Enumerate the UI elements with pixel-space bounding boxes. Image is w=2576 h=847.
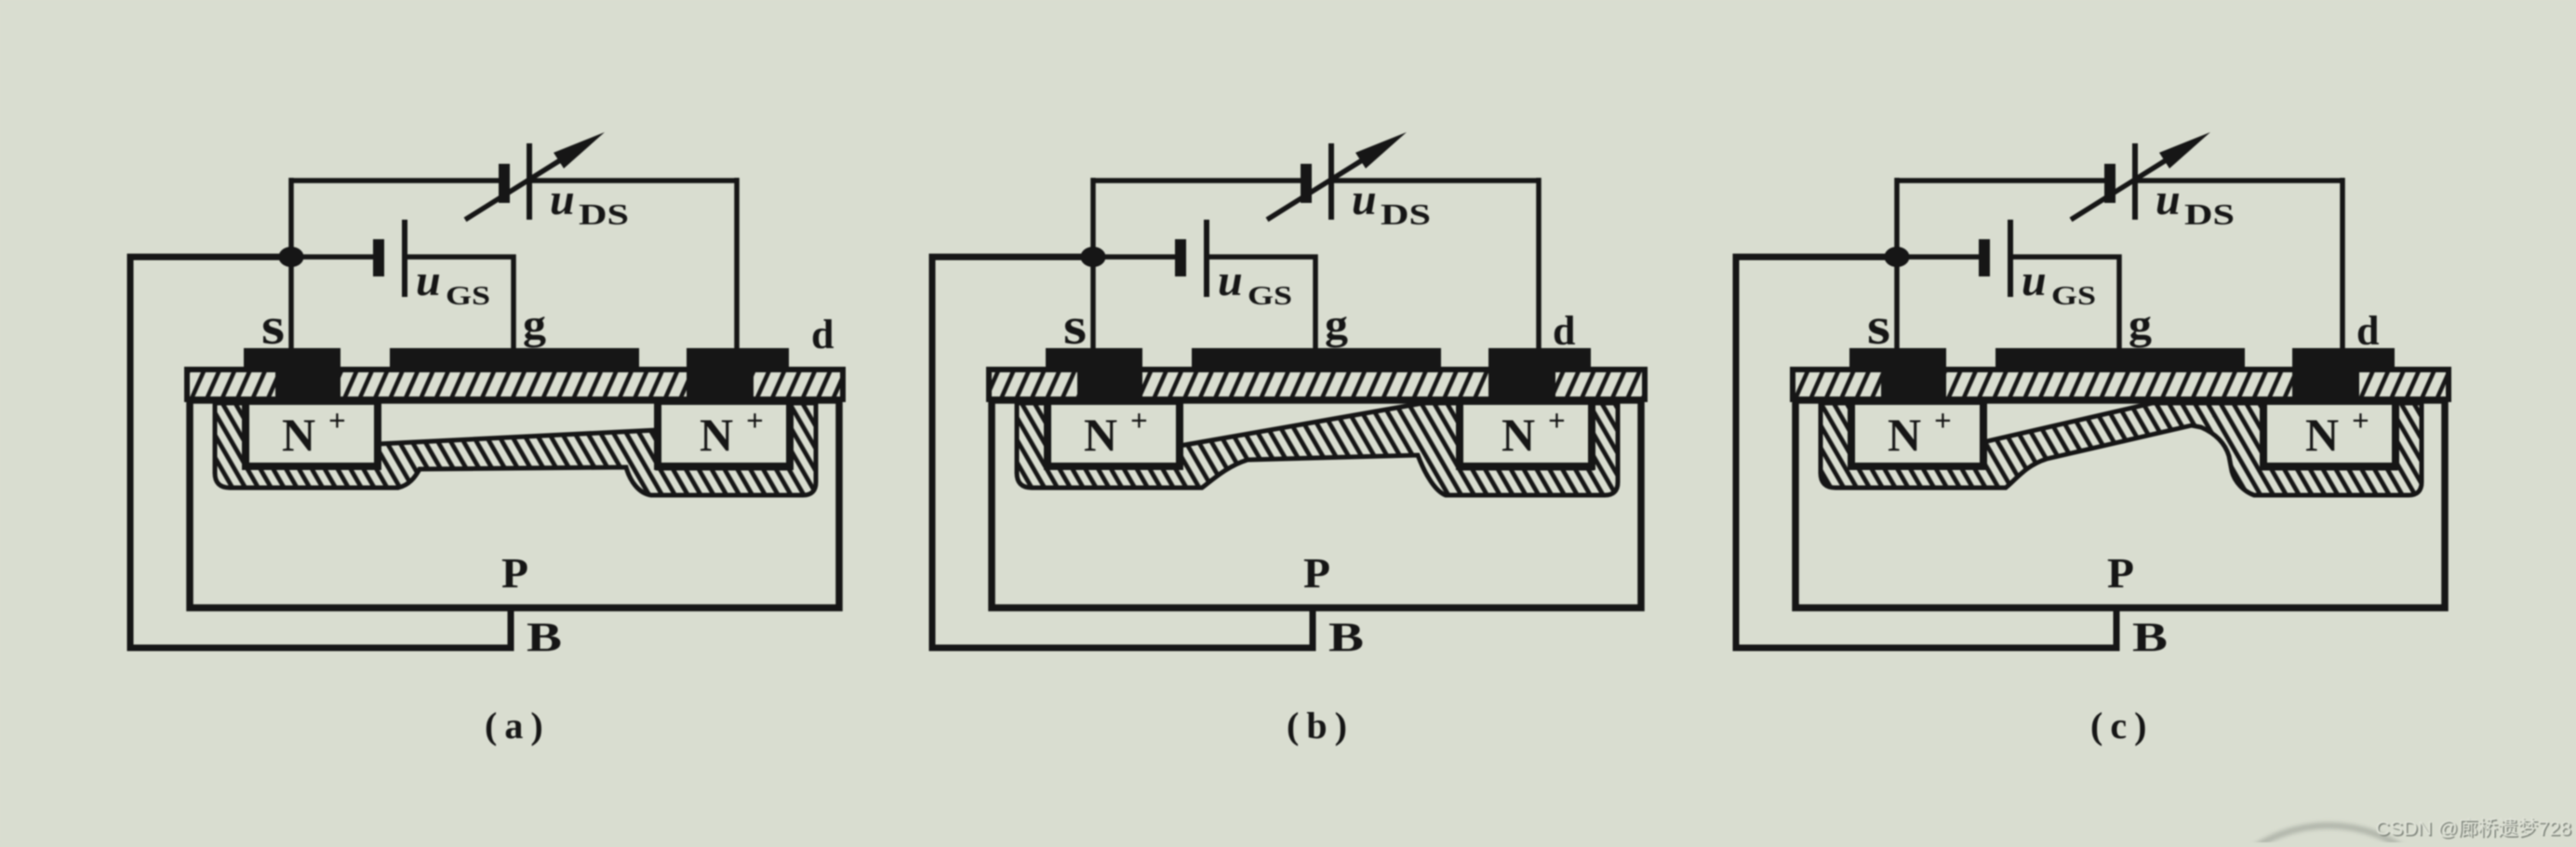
- svg-text:g: g: [1325, 301, 1348, 348]
- svg-text:N: N: [282, 409, 315, 461]
- wire: node to uGS battery (b): [1093, 254, 1176, 260]
- svg-text:N: N: [1084, 409, 1117, 461]
- battery uDS short plate (c): [2104, 164, 2116, 203]
- svg-text:N: N: [2305, 409, 2339, 461]
- wire: node to uGS battery (a): [291, 254, 374, 260]
- N+ source well (a): [246, 401, 378, 466]
- wire: uGS battery to gate (c): [2012, 257, 2119, 349]
- svg-text:d: d: [1553, 308, 1575, 354]
- svg-text:g: g: [2129, 301, 2152, 348]
- metal contact d (c): [2292, 348, 2395, 372]
- svg-text:+: +: [746, 405, 764, 438]
- metal contact d (b): [1488, 348, 1591, 372]
- svg-text:B: B: [2132, 614, 2168, 660]
- svg-text:+: +: [328, 405, 346, 438]
- svg-text:s: s: [1063, 298, 1087, 356]
- svg-text:CSDN @廊桥遗梦728: CSDN @廊桥遗梦728: [2375, 817, 2571, 840]
- svg-text:d: d: [811, 312, 834, 357]
- oxide layer SiO2 hatched (b): [989, 370, 1645, 399]
- metal contact d (a): [687, 348, 789, 372]
- oxide layer SiO2 hatched (c): [1793, 370, 2449, 399]
- battery uDS long plate (a): [527, 143, 532, 220]
- svg-text:s: s: [261, 298, 285, 356]
- wire: uGS battery to gate (b): [1208, 257, 1315, 349]
- metal contact s (a): [244, 348, 340, 372]
- battery uGS short plate (a): [373, 239, 384, 276]
- metal contact g (gate) (a): [390, 348, 639, 372]
- svg-text:N: N: [1502, 409, 1535, 461]
- svg-text:DS: DS: [2184, 197, 2235, 231]
- battery uDS long plate (c): [2132, 143, 2138, 220]
- svg-text:d: d: [2356, 308, 2379, 354]
- wire: s terminal vertical (c): [1894, 178, 1900, 349]
- metal contact s (c): [1849, 348, 1946, 372]
- svg-text:s: s: [1867, 298, 1890, 356]
- wire: top drain loop (a): [291, 178, 737, 183]
- svg-text:N: N: [700, 409, 733, 461]
- wire: d terminal vertical (c): [2340, 178, 2345, 349]
- arrow: variable source uDS (c): [2071, 155, 2175, 220]
- wire: s terminal vertical (b): [1090, 178, 1096, 349]
- svg-text:u: u: [2156, 175, 2181, 224]
- svg-text:DS: DS: [579, 197, 629, 231]
- arrow: variable source uDS (a): [465, 155, 569, 220]
- metal contact s (b): [1046, 348, 1142, 372]
- svg-text:GS: GS: [446, 281, 490, 311]
- svg-text:B: B: [527, 614, 562, 660]
- node: s junction dot (c): [1885, 247, 1910, 267]
- metal contact g (gate) (c): [1995, 348, 2245, 372]
- battery uDS long plate (b): [1328, 143, 1334, 220]
- battery uGS long plate (b): [1204, 220, 1209, 297]
- oxide layer SiO2 hatched (a): [187, 370, 843, 399]
- wire: node to uGS battery (c): [1897, 254, 1980, 260]
- wire: s terminal vertical (a): [288, 178, 294, 349]
- battery uDS short plate (a): [499, 164, 510, 203]
- svg-text:(b): (b): [1287, 705, 1355, 746]
- svg-text:P: P: [1303, 549, 1330, 597]
- watermark circle arc: [2194, 826, 2463, 847]
- P substrate box (a): [190, 400, 839, 608]
- battery uGS long plate (a): [402, 220, 407, 297]
- svg-text:B: B: [1328, 614, 1364, 660]
- N+ source well (c): [1851, 401, 1983, 466]
- svg-text:(c): (c): [2090, 705, 2154, 746]
- battery uDS short plate (b): [1301, 164, 1312, 203]
- wire: d terminal vertical (a): [734, 178, 740, 349]
- N+ drain well (b): [1460, 401, 1592, 466]
- svg-text:P: P: [2107, 549, 2134, 597]
- depletion layer hatched band (b): [1017, 403, 1618, 495]
- N+ drain well (a): [658, 401, 790, 466]
- svg-text:g: g: [523, 301, 546, 348]
- metal contact g (gate) (b): [1192, 348, 1441, 372]
- svg-text:+: +: [1548, 405, 1566, 438]
- svg-text:+: +: [1130, 405, 1148, 438]
- svg-text:u: u: [2022, 256, 2047, 305]
- svg-text:u: u: [1352, 175, 1377, 224]
- N+ source well (b): [1048, 401, 1180, 466]
- svg-text:(a): (a): [485, 705, 551, 746]
- battery uGS long plate (c): [2008, 220, 2013, 297]
- svg-text:u: u: [1218, 256, 1243, 305]
- battery uGS short plate (b): [1175, 239, 1186, 276]
- svg-text:N: N: [1888, 409, 1921, 461]
- svg-text:u: u: [550, 175, 575, 224]
- wire: top drain loop (c): [1897, 178, 2342, 183]
- wire: top drain loop (b): [1093, 178, 1539, 183]
- wire: source to body loop (a): [130, 257, 511, 648]
- wire: source to body loop (b): [932, 257, 1313, 648]
- svg-text:u: u: [416, 256, 441, 305]
- N+ drain well (c): [2263, 401, 2396, 466]
- svg-text:DS: DS: [1381, 197, 1431, 231]
- svg-text:GS: GS: [2051, 281, 2096, 311]
- depletion layer hatched band (a): [215, 403, 816, 495]
- svg-text:GS: GS: [1248, 281, 1292, 311]
- svg-text:P: P: [501, 549, 528, 597]
- P substrate box (b): [992, 400, 1641, 608]
- arrow: variable source uDS (b): [1267, 155, 1371, 220]
- wire: d terminal vertical (b): [1536, 178, 1542, 349]
- battery uGS short plate (c): [1979, 239, 1990, 276]
- node: s junction dot (b): [1081, 247, 1106, 267]
- wire: source to body loop (c): [1736, 257, 2116, 648]
- depletion layer hatched band (c): [1821, 403, 2422, 495]
- wire: uGS battery to gate (a): [407, 257, 514, 349]
- node: s junction dot (a): [279, 247, 304, 267]
- svg-text:+: +: [1934, 405, 1952, 438]
- svg-text:+: +: [2352, 405, 2369, 438]
- P substrate box (c): [1795, 400, 2445, 608]
